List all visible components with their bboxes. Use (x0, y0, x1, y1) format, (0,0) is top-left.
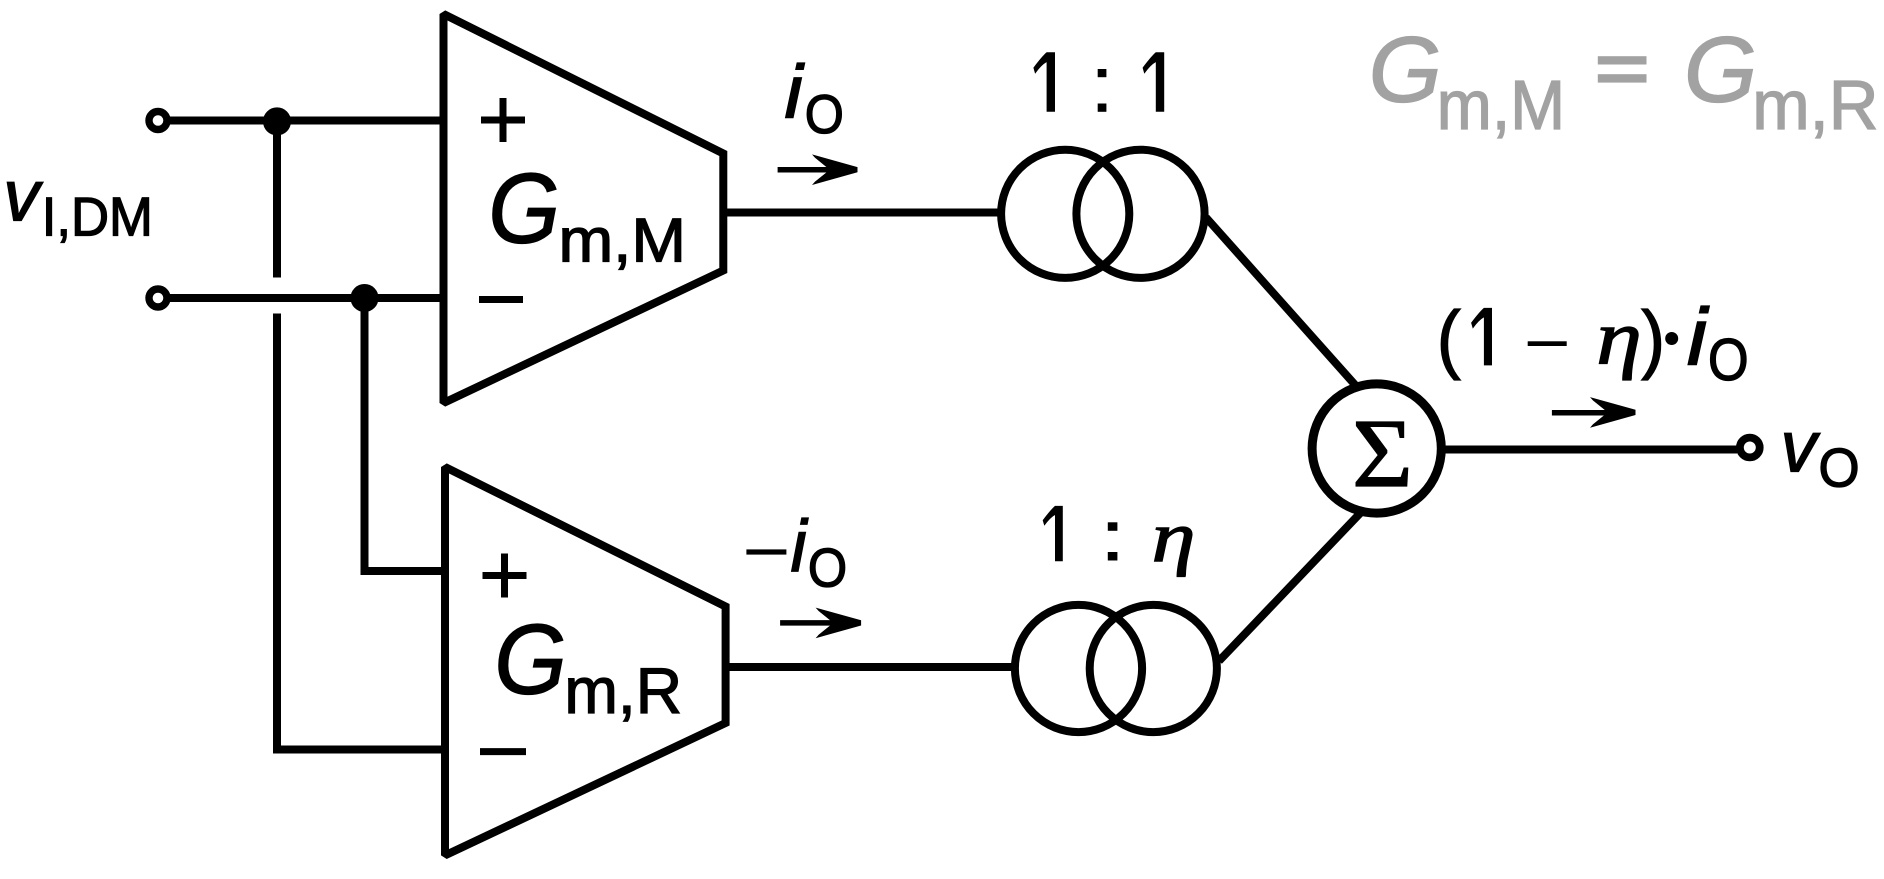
svg-text:m,M: m,M (1437, 66, 1565, 144)
current mirror 1:eta right circle (1090, 605, 1217, 732)
wire: top input v+ horizontal (167, 117, 447, 125)
svg-text:O: O (1708, 326, 1749, 393)
svg-text:Σ: Σ (1352, 400, 1413, 508)
wire: Gm,M output to 1:1 mirror (719, 209, 998, 217)
wire: vertical below crossover continuing to Gm,R minus input (277, 314, 447, 750)
colon of 1:1 (1098, 69, 1107, 77)
digit 1 (first of 1:1) (1033, 52, 1055, 112)
svg-text:η: η (1152, 496, 1196, 577)
digit 1 in (1-eta) (1471, 308, 1492, 366)
svg-text:G: G (488, 153, 560, 264)
digit 1 of 1:eta (1043, 506, 1063, 561)
op-amp (OTA) Gm,R trapezoid body (445, 467, 726, 855)
svg-text:): ) (1641, 296, 1665, 381)
svg-text:v: v (1781, 408, 1821, 488)
svg-text:η: η (1596, 295, 1642, 381)
svg-text:I,DM: I,DM (42, 187, 153, 248)
svg-text:O: O (805, 83, 844, 145)
summer circle (sigma node) (1312, 384, 1441, 513)
plus sign inside Gm,R (483, 554, 527, 598)
wire: diagonal 1:1 mirror to summer (1206, 218, 1365, 397)
svg-text:G: G (1369, 18, 1442, 122)
minus sign inside Gm,R (480, 748, 526, 755)
input terminal v- (open circle) (149, 289, 167, 307)
svg-text:m,R: m,R (564, 654, 682, 727)
plus sign inside Gm,M (481, 98, 525, 142)
svg-text:O: O (1819, 437, 1860, 498)
svg-text:v: v (3, 156, 43, 236)
multiplication dot (1665, 332, 1678, 345)
current mirror 1:eta left circle (1015, 605, 1142, 732)
current arrow (1-eta)iO (summer output) (1552, 397, 1636, 428)
input terminal v+ (open circle) (149, 112, 167, 130)
wire: Gm,R output to 1:eta mirror (721, 663, 1012, 671)
node B junction dot (bottom input) (350, 284, 378, 312)
colon of 1:eta (1108, 522, 1118, 531)
node A junction dot (top input) (263, 107, 291, 135)
minus of -i_O (746, 549, 786, 554)
svg-text:G: G (494, 605, 567, 716)
svg-text:i: i (784, 49, 805, 133)
minus in (1-eta) (1528, 341, 1567, 346)
gray equals sign (1598, 56, 1647, 82)
op-amp (OTA) Gm,M trapezoid body (444, 14, 724, 403)
svg-text:(: ( (1437, 296, 1461, 381)
wire: vertical from node A down to crossover gap (273, 117, 281, 278)
wire: summer output to vO terminal (1445, 446, 1737, 454)
minus sign inside Gm,M (479, 296, 523, 303)
svg-text:m,M: m,M (559, 207, 687, 276)
svg-text:G: G (1684, 18, 1757, 122)
svg-text:O: O (808, 538, 847, 599)
current mirror 1:1 left circle (1001, 150, 1129, 278)
current arrow -iO (bottom) (780, 608, 861, 639)
svg-text:i: i (791, 505, 809, 587)
wire: bottom input v- horizontal (167, 294, 447, 302)
digit 1 (second of 1:1) (1143, 52, 1165, 112)
output terminal vO (open circle) (1740, 438, 1760, 458)
svg-text:i: i (1687, 292, 1710, 382)
current mirror 1:1 right circle (1076, 150, 1204, 278)
current arrow iO (top) (778, 154, 858, 185)
wire: vertical from node B to Gm,R plus input (365, 294, 448, 571)
svg-text:m,R: m,R (1752, 66, 1878, 144)
wire: diagonal 1:eta mirror to summer (1219, 505, 1368, 661)
